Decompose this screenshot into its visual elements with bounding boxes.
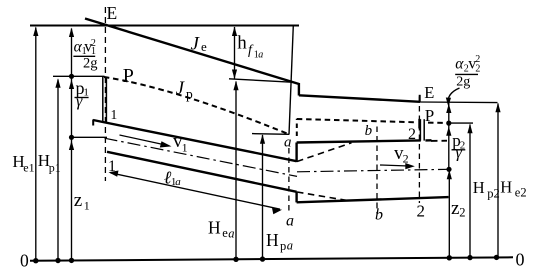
conical diffuser top (dashed): [297, 143, 352, 162]
pipe 2 bottom wall: [297, 197, 449, 202]
pipe 1 centerline (dash-dot): [105, 138, 298, 176]
svg-text:p: p: [186, 86, 193, 101]
svg-text:2: 2: [91, 38, 96, 49]
svg-text:z: z: [451, 198, 459, 219]
dimension p2/gamma column: [448, 103, 450, 170]
svg-text:a: a: [228, 227, 234, 241]
svg-text:2g: 2g: [83, 56, 98, 72]
pipe expansion bottom step: [295, 192, 297, 203]
svg-text:P: P: [123, 65, 134, 87]
svg-text:1: 1: [84, 199, 90, 213]
pipe 1 bottom wall: [107, 152, 297, 192]
wire: energy-level-at-a tick line: [229, 79, 294, 83]
svg-text:0: 0: [516, 250, 525, 270]
dimension column at section 1 (velocity head / pressure head / z1): [71, 29, 73, 261]
node P end cap at section 2: [418, 119, 420, 129]
svg-text:z: z: [74, 190, 82, 211]
svg-text:γ: γ: [456, 145, 463, 162]
dimension Hp2: [469, 125, 471, 258]
svg-text:e2: e2: [515, 186, 527, 200]
svg-text:b: b: [365, 123, 373, 139]
datum line 0-0: [30, 257, 513, 261]
dimension He2: [497, 104, 499, 258]
wire: centerline level line at section 1: [72, 136, 108, 138]
section line 1-1 (dashed): [104, 7, 106, 181]
wire: piezometric level line at section 1: [53, 75, 105, 77]
section line 2-2 (dashed): [418, 97, 420, 204]
pipe 2 top wall dashed continuation: [431, 140, 447, 142]
dimension hf1a (head loss) with arrows: [234, 27, 236, 79]
dimension He1: [35, 28, 37, 261]
conical diffuser bottom (dashed): [297, 192, 348, 201]
leader arrow from alpha2 fraction to velocity head gap: [448, 88, 459, 104]
svg-text:e1: e1: [23, 160, 34, 174]
svg-text:E: E: [424, 83, 434, 102]
svg-text:b: b: [375, 207, 383, 224]
svg-text:2: 2: [417, 202, 426, 221]
velocity arrow v1: [120, 135, 170, 146]
dimension Hpa: [262, 135, 264, 259]
piezometer tube at section 2: [419, 119, 421, 140]
wire: piezometric jump up at expansion (dashed): [296, 119, 298, 136]
node E end cap at section 2: [419, 95, 421, 102]
svg-text:2: 2: [475, 54, 480, 65]
node: datum junction dots: [33, 255, 499, 264]
svg-text:p1: p1: [49, 161, 61, 175]
svg-text:2: 2: [403, 152, 409, 166]
svg-text:E: E: [107, 3, 118, 23]
section line a-a lower part (dashed): [288, 148, 290, 213]
svg-text:a: a: [258, 50, 263, 61]
svg-text:H: H: [266, 230, 279, 250]
svg-text:2: 2: [459, 206, 465, 220]
svg-text:a: a: [284, 135, 292, 151]
dimension z2: [448, 171, 450, 258]
svg-text:2: 2: [475, 63, 480, 74]
node: piezometric level dot at section 2: [446, 121, 451, 126]
wire: piezometric line Jp segment 1 (dashed): [104, 77, 289, 134]
wire: piezometric line dashes right of section 2: [428, 122, 446, 124]
wire: vertical drop from reference line to energy line at section a: [289, 26, 293, 135]
svg-text:J: J: [176, 79, 185, 99]
wire: piezometric line Jp segment 2 (dashed): [297, 119, 417, 122]
svg-text:h: h: [237, 33, 247, 54]
pipe 2 top wall right of piezometer tube: [425, 139, 431, 141]
svg-text:e: e: [201, 39, 207, 54]
dimension Hp1: [57, 80, 59, 261]
wire: piezometric level transfer to Hp2: [449, 122, 473, 124]
wire: initial energy reference line: [30, 25, 299, 27]
pipe 2 top wall: [297, 140, 421, 142]
svg-text:2g: 2g: [456, 75, 470, 90]
pipe 1 inlet lip: [92, 120, 94, 126]
wire: energy line Je segment 2: [299, 95, 420, 102]
svg-text:1: 1: [83, 87, 89, 99]
piezometer tube at section 1: [102, 77, 104, 122]
svg-text:J: J: [191, 33, 201, 54]
svg-text:1: 1: [111, 107, 118, 122]
svg-text:γ: γ: [76, 93, 83, 110]
wire: energy line Je segment 1: [85, 19, 299, 85]
svg-text:p: p: [280, 239, 286, 253]
svg-text:a: a: [286, 213, 294, 230]
dimension l1a (pipe reach length): [111, 173, 281, 209]
pipe 2 centerline (dash-dot): [297, 169, 449, 172]
section line b-b (dashed): [376, 127, 378, 214]
svg-text:2: 2: [408, 126, 416, 143]
node: centerline dot at section 2: [446, 167, 451, 172]
svg-text:H: H: [473, 178, 485, 197]
wire: piezometric-level-at-a tick line: [252, 133, 289, 136]
wire: energy line local drop at expansion: [298, 83, 300, 96]
velocity arrow v2: [380, 165, 412, 166]
svg-text:0: 0: [20, 250, 29, 270]
pipe expansion top step: [295, 143, 297, 163]
svg-text:a: a: [287, 239, 293, 253]
svg-text:1: 1: [182, 141, 188, 155]
dimension Hea: [235, 82, 237, 260]
svg-text:H: H: [500, 178, 512, 197]
wire: energy level transfer line to He2: [420, 101, 498, 104]
svg-text:a: a: [175, 176, 181, 188]
pipe 1 top wall: [93, 120, 297, 161]
svg-text:H: H: [208, 218, 221, 238]
